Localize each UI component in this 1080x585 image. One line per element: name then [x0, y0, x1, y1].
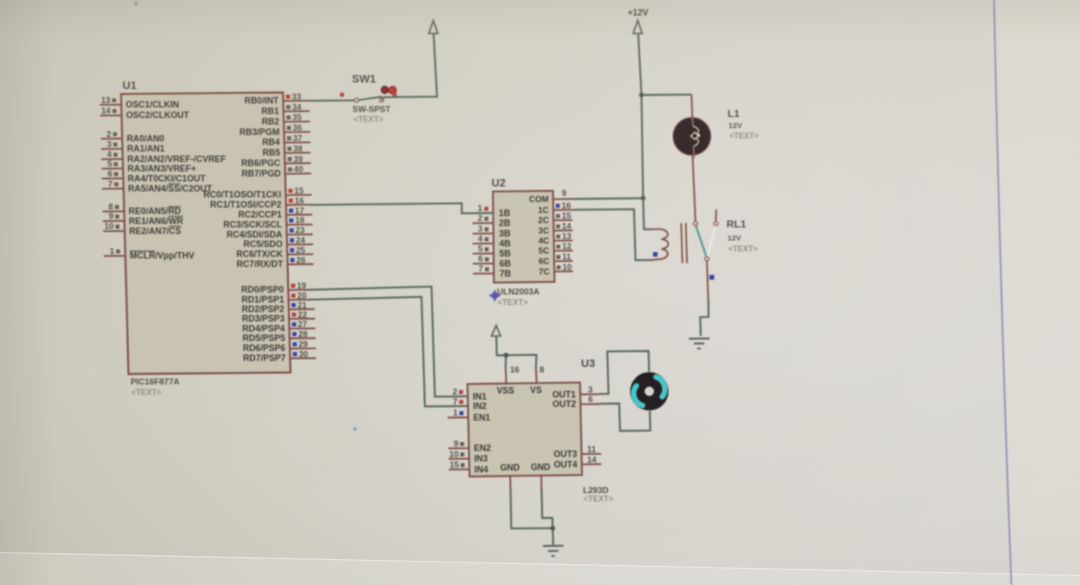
ground symbol below relay	[689, 339, 710, 349]
U1 right pins	[203, 91, 316, 363]
off-sheet area right of border	[994, 0, 1080, 585]
wire U3 GND pins to ground	[511, 490, 554, 546]
wire U2.COM to +12V rail	[572, 197, 643, 200]
dust speck top	[134, 2, 137, 5]
power +12V symbol	[628, 8, 649, 34]
label L1 12V TEXT	[728, 109, 759, 141]
wire U2.1C to relay coil	[572, 209, 652, 260]
relay RL1 contacts	[693, 210, 718, 261]
U1 left pins	[100, 95, 227, 261]
switch SW1 SW-SPST	[352, 74, 391, 124]
op-amp U1 microcontroller PIC16F877A body	[121, 80, 291, 397]
node junction VSS	[504, 353, 509, 358]
power symbol above U3	[492, 326, 501, 337]
switch SW1 actuator buttons	[381, 86, 396, 97]
wire U1.RC1 to U2.1B	[309, 203, 493, 213]
wire SW1 to power arrow	[382, 34, 438, 100]
U3 right pins	[552, 384, 601, 469]
driver U3 L293D body	[468, 358, 614, 504]
node square on coil wire	[653, 252, 658, 257]
node junction at lamp branch	[639, 93, 644, 98]
node junction GND	[550, 526, 555, 531]
driver U2 ULN2003A body	[492, 178, 555, 283]
wire junction to lamp top	[642, 94, 692, 96]
wire relay common to ground	[700, 261, 708, 336]
U2 right pins COM 1C-7C	[529, 188, 573, 276]
wire power to U3 VSS VS	[496, 336, 536, 368]
relay RL1 coil	[652, 229, 668, 260]
wire U1.RB0 to SW1	[309, 99, 357, 102]
lamp top pin	[691, 95, 694, 118]
wire +12V vertical rail	[638, 34, 643, 198]
U2 left pins 1B-7B	[472, 203, 511, 278]
wire U1.RD1 to U3.IN2	[309, 297, 468, 407]
motor M1	[630, 372, 668, 410]
label ULN2003A TEXT	[497, 286, 540, 307]
wire +12V junction down to coil top	[643, 198, 652, 229]
node square below relay common	[709, 275, 714, 280]
relay RL1 core bars	[681, 223, 687, 263]
wire U3.OUT1 to motor top	[600, 351, 649, 394]
U2 origin marker star	[489, 290, 501, 302]
ground symbol below U3	[543, 546, 564, 556]
wire lamp bottom to relay contact	[693, 155, 696, 222]
U3 top pins VSS VS	[497, 365, 545, 396]
wire U1.RD0 to U3.IN1	[309, 287, 468, 397]
power symbol above SW1	[429, 21, 438, 34]
sheet border line	[994, 0, 1012, 585]
label RL1 12V TEXT	[727, 220, 758, 254]
lamp L1 12V	[673, 118, 711, 159]
node square on RB0 wire	[340, 93, 344, 97]
node junction COM rail	[641, 196, 646, 201]
wire U3.OUT2 to motor bottom	[600, 404, 650, 431]
dust speck	[353, 427, 357, 431]
U3 left pins	[448, 387, 491, 475]
U3 bottom pins GND GND	[500, 462, 550, 492]
